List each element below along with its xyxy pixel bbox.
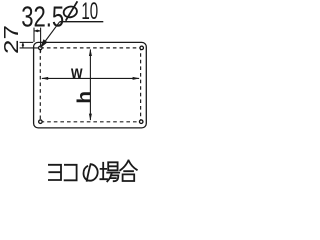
svg-text:h: h (74, 91, 95, 104)
svg-text:27: 27 (0, 25, 22, 54)
svg-text:10: 10 (81, 0, 98, 25)
svg-text:w: w (70, 62, 83, 83)
svg-text:32.5: 32.5 (21, 2, 64, 33)
